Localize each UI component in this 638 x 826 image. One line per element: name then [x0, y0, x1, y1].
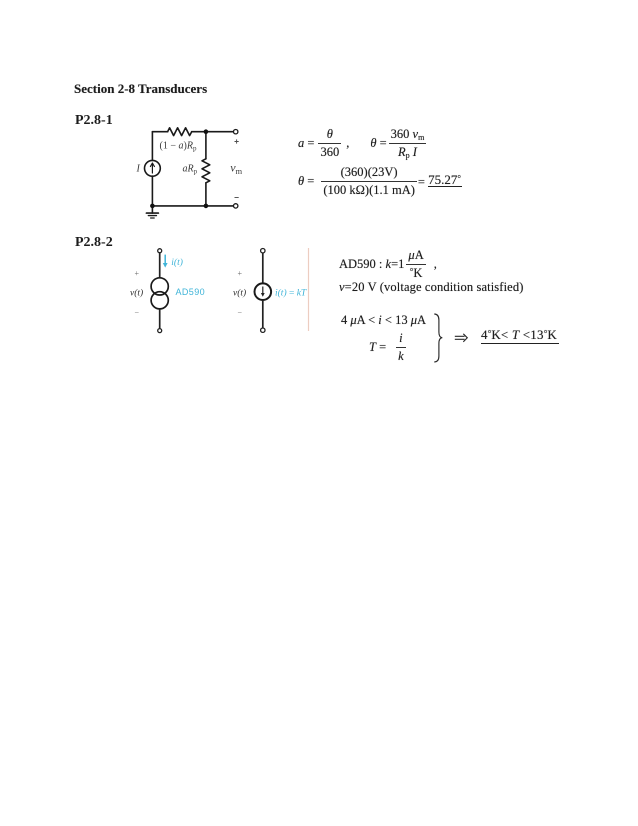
wire top rail left segment	[152, 131, 167, 133]
current source circle	[255, 283, 272, 300]
label minus	[235, 197, 239, 199]
terminal bottom open	[234, 204, 238, 208]
source v(t)/i(t)=kT: top terminal	[261, 249, 265, 253]
wire source to bottom rail	[151, 176, 153, 206]
AD590 symbol circle lower	[151, 292, 168, 309]
label P2.8-2	[75, 236, 113, 250]
svg-text:v(t): v(t)	[130, 287, 143, 298]
equation v=20 V voltage condition	[339, 280, 524, 295]
double arrow implies	[454, 333, 469, 343]
label plus	[235, 139, 239, 143]
wire resistor bottom stub	[205, 183, 207, 206]
node B bottom	[204, 204, 209, 209]
node A top	[204, 129, 209, 134]
wire bottom	[262, 300, 264, 328]
equation theta = (360)(23V)/((100kOhm)(1.1mA)) = 75.27deg	[298, 165, 461, 198]
current source I circle	[145, 160, 161, 176]
svg-text:+: +	[135, 269, 140, 278]
svg-text:−: −	[238, 309, 243, 318]
terminal top open	[234, 130, 238, 134]
wire top	[262, 253, 264, 284]
svg-text:v(t): v(t)	[233, 287, 246, 298]
circuit P2.8-2 schematics	[125, 242, 315, 337]
bottom terminal	[261, 328, 265, 332]
wire resistor top stub	[205, 132, 207, 159]
svg-text:I: I	[136, 164, 141, 175]
svg-text:i(t): i(t)	[171, 257, 183, 268]
source arrow down	[262, 287, 264, 295]
node C bottom-left	[150, 204, 155, 209]
AD590 symbol circle upper	[151, 278, 168, 295]
svg-text:vm: vm	[230, 161, 242, 176]
underline of 75.27	[428, 186, 462, 187]
result 4K < T < 13K underlined	[481, 327, 557, 343]
equation 4uA < i < 13uA	[341, 313, 426, 328]
wire top-left vertical	[151, 132, 153, 161]
svg-text:AD590: AD590	[176, 287, 206, 297]
equation T = i/k	[369, 331, 406, 364]
resistor aRp vertical	[202, 159, 210, 183]
current source arrow	[151, 164, 153, 173]
equation a = theta/360 , theta = 360vm/RpI	[298, 127, 426, 160]
svg-text:aRp: aRp	[183, 164, 198, 176]
heading Section 2-8 Transducers	[74, 82, 207, 95]
equation AD590 k=1 uA/K	[339, 248, 437, 281]
svg-text:i(t) = kT: i(t) = kT	[275, 287, 307, 298]
scan artifact pink line	[308, 248, 310, 331]
wire top rail right segment	[192, 131, 234, 133]
ground	[151, 206, 153, 213]
circuit P2.8-1 schematic	[130, 118, 250, 230]
svg-text:(1 − a)Rp: (1 − a)Rp	[160, 141, 197, 153]
brace	[433, 313, 445, 364]
label P2.8-1	[75, 114, 113, 128]
underline of result 4K..13K	[481, 343, 559, 344]
bottom terminal	[158, 329, 162, 333]
AD590 device: top terminal	[158, 249, 162, 253]
resistor (1-a)Rp horizontal	[168, 128, 192, 136]
svg-text:−: −	[135, 309, 140, 318]
wire bottom rail	[152, 205, 233, 207]
current arrow i(t) cyan	[164, 255, 166, 266]
wire bottom	[159, 309, 161, 329]
svg-text:+: +	[238, 269, 243, 278]
wire top	[159, 253, 161, 278]
